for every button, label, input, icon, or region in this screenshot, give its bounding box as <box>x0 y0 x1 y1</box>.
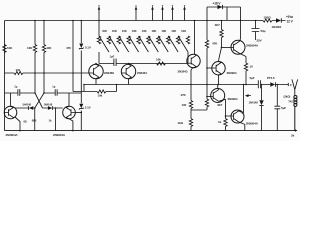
resistor R16 150 top right <box>263 19 272 22</box>
svg-text:10k: 10k <box>16 68 21 72</box>
wire Q9 base to x81.3 <box>75 112 81 114</box>
capacitor C1 1uF <box>114 59 116 67</box>
capacitor C4 5uF <box>274 106 280 109</box>
wire Q8 emitter <box>15 117 20 131</box>
earphone plug <box>292 79 298 95</box>
svg-text:1μ: 1μ <box>52 85 55 89</box>
wire cap line right y93 <box>44 92 81 94</box>
wire cap line left y93 <box>5 92 36 94</box>
transistor Q3 2N3643 <box>187 54 200 68</box>
wire V191 lower <box>190 85 192 131</box>
svg-text:50μ: 50μ <box>261 29 266 33</box>
wire Q1 emitter stub <box>95 79 97 85</box>
transistor Q2 2N4361 <box>121 64 135 78</box>
svg-text:4K7: 4K7 <box>215 23 221 27</box>
wire V207 <box>191 21 207 111</box>
resistor R5 10K <box>157 62 166 65</box>
wire emitter bus y84.5 <box>84 84 288 86</box>
svg-text:4K7: 4K7 <box>217 103 223 107</box>
svg-text:150Ω: 150Ω <box>264 15 272 19</box>
svg-text:2k: 2k <box>291 133 295 137</box>
wire diode line y108 <box>15 107 63 109</box>
resistor R7 100 <box>189 101 192 109</box>
wire Q3 emitter to V191 <box>191 68 193 85</box>
svg-text:100: 100 <box>182 103 187 107</box>
svg-text:2N3643: 2N3643 <box>178 69 188 73</box>
transistor Q4 2N3904 <box>212 61 225 75</box>
svg-text:470: 470 <box>66 46 71 50</box>
svg-text:10K: 10K <box>46 46 52 50</box>
wire stub x34.75 to rail <box>34 108 36 131</box>
svg-text:5μF: 5μF <box>250 76 255 80</box>
wire Q4 emitter <box>218 75 220 85</box>
wire Q5 base <box>207 96 211 98</box>
wire V221.5 collector chain <box>219 21 222 62</box>
wire Q8 collector <box>10 93 12 106</box>
svg-text:10K: 10K <box>161 29 166 33</box>
svg-text:10K: 10K <box>102 29 107 33</box>
svg-text:10K: 10K <box>27 46 33 50</box>
svg-text:+18 V: +18 V <box>213 2 222 6</box>
wire Q2 emitter stub <box>128 79 130 85</box>
wire input bus y73 <box>5 72 90 74</box>
transistor Q5 2N3904 <box>211 89 226 103</box>
svg-text:10K: 10K <box>181 29 186 33</box>
node rail end arrow <box>291 129 298 137</box>
node input stub A <box>98 5 101 20</box>
svg-text:10k: 10k <box>98 93 103 97</box>
wire emitter loop risers <box>73 85 117 92</box>
wire Q5 collector <box>217 85 219 89</box>
wire left border <box>4 21 6 131</box>
wire Q1 collector stub <box>95 63 97 66</box>
svg-text:2N4361: 2N4361 <box>137 71 147 75</box>
capacitor C2 50uF <box>252 21 260 41</box>
svg-text:10K: 10K <box>151 29 156 33</box>
svg-text:10: 10 <box>250 65 254 69</box>
diode D6 1N4148 <box>48 106 53 110</box>
resistor R4 10K <box>14 71 23 74</box>
resistor R12 1k <box>224 119 227 127</box>
zener D1 5.1V <box>79 44 83 50</box>
resistor R3 10K <box>42 45 45 53</box>
resistor R13 10 <box>244 63 247 71</box>
inductor L1 earphone coil <box>294 96 297 131</box>
node input stub B <box>135 5 138 20</box>
svg-text:5.1V: 5.1V <box>85 106 91 110</box>
svg-text:12 V: 12 V <box>287 19 294 23</box>
junction dots top rail <box>34 20 256 22</box>
node output C <box>287 83 289 86</box>
wire Q7 collector <box>239 21 242 41</box>
svg-text:2N3904: 2N3904 <box>228 97 238 101</box>
svg-text:2N3904A: 2N3904A <box>246 122 259 126</box>
svg-text:2N3904A: 2N3904A <box>246 43 259 47</box>
svg-text:2N4360: 2N4360 <box>104 71 114 75</box>
wire Q7 base <box>222 47 232 49</box>
diode D3 PT4.5 <box>270 82 275 87</box>
wire top rail <box>5 20 264 22</box>
svg-text:1k: 1k <box>218 120 222 124</box>
svg-text:1N4148: 1N4148 <box>44 103 53 107</box>
node input stub C <box>151 5 154 20</box>
wire +18V feed <box>207 7 241 21</box>
resistor R6 10k <box>97 90 106 93</box>
wire Q6 base <box>226 115 232 117</box>
capacitor C6 <box>55 89 57 96</box>
zener D2 5.1V <box>79 104 83 110</box>
wire Q2 collector stub <box>128 63 130 66</box>
svg-text:51K: 51K <box>7 46 13 50</box>
wire V261.5 <box>261 85 263 131</box>
wire cross coupling X <box>35 93 44 108</box>
wire collector bus y63.5 <box>99 63 187 65</box>
wire vertical x35 <box>34 21 36 94</box>
svg-text:10K: 10K <box>171 29 176 33</box>
junction dots misc <box>19 47 226 132</box>
wire Q4 base <box>207 67 212 69</box>
diode D8 1N4001 <box>272 18 286 22</box>
svg-text:47K: 47K <box>181 93 187 97</box>
wire stub x55.5 to rail <box>55 108 57 131</box>
svg-text:25V: 25V <box>257 38 262 42</box>
diode D7 <box>218 5 223 9</box>
transistor Q1 2N4360 <box>89 64 103 78</box>
svg-text:PT4.5: PT4.5 <box>267 76 275 80</box>
resistor R2 10K <box>33 45 36 53</box>
transistor Q8 2N3904A left multivibrator <box>4 106 17 119</box>
svg-text:47K: 47K <box>212 42 218 46</box>
svg-text:10K: 10K <box>112 29 117 33</box>
wire Q6 emitter <box>244 124 246 130</box>
resistor R8 1k <box>189 119 192 127</box>
diode D5 1N4148 <box>29 106 34 110</box>
svg-text:10k: 10k <box>156 58 161 62</box>
transistor Q6 2N3904A <box>231 110 245 124</box>
svg-text:745: 745 <box>288 99 293 103</box>
wire zener column x81.3 <box>80 21 82 131</box>
wire Q7 emitter chain <box>245 57 247 85</box>
svg-text:10K: 10K <box>142 29 147 33</box>
svg-text:2N3904A: 2N3904A <box>53 133 66 137</box>
wire V225.5 emitter chain <box>225 99 227 130</box>
resistor R11 4K7 <box>220 30 223 38</box>
svg-text:(2kΩ): (2kΩ) <box>284 95 291 99</box>
transistor Q9 2N3904A right multivibrator <box>63 106 76 119</box>
svg-text:10K: 10K <box>122 29 127 33</box>
node input stub F <box>183 5 186 20</box>
capacitor C5 <box>18 89 20 96</box>
svg-text:2N3904A: 2N3904A <box>6 133 19 137</box>
svg-text:+9 to: +9 to <box>286 15 293 19</box>
junction dots y73 <box>34 72 74 74</box>
wire Q3 collector <box>194 21 196 55</box>
svg-text:2N3904: 2N3904 <box>227 71 237 75</box>
resistor ladder 10K chain <box>97 21 189 64</box>
node arrow marker <box>245 94 251 97</box>
svg-text:5μF: 5μF <box>281 106 286 110</box>
svg-text:10K: 10K <box>132 29 137 33</box>
capacitor C3 5uF on output line <box>258 80 260 88</box>
resistor R9 47K <box>205 40 208 48</box>
svg-text:1μ: 1μ <box>14 85 17 89</box>
svg-text:680: 680 <box>32 119 37 123</box>
svg-text:1kΩ: 1kΩ <box>178 121 184 125</box>
wire Q9 emitter <box>69 119 73 131</box>
wire V276.8 <box>276 85 278 131</box>
svg-text:1μF: 1μF <box>110 55 115 59</box>
labels ladder 10K <box>102 29 186 33</box>
node input stub D <box>161 5 164 20</box>
resistor R1 51K on left border <box>3 45 6 53</box>
wire vertical x73 <box>72 21 74 92</box>
junction dots y84.5 <box>83 84 278 86</box>
wire vertical x44 <box>43 21 45 94</box>
node input stub E <box>171 5 174 20</box>
svg-text:1N4001: 1N4001 <box>272 25 282 29</box>
wire Q9 collector <box>68 93 70 106</box>
transistor Q7 2N3904A <box>231 40 246 56</box>
diode D4 1N4148 <box>259 100 263 105</box>
svg-text:5.1V: 5.1V <box>85 46 91 50</box>
wire Q6 collector <box>242 85 244 114</box>
svg-text:1N4148: 1N4148 <box>22 103 31 107</box>
svg-text:1N4148: 1N4148 <box>249 100 259 104</box>
wire bottom rail <box>5 130 296 132</box>
resistor R10 4k7 <box>205 99 208 107</box>
